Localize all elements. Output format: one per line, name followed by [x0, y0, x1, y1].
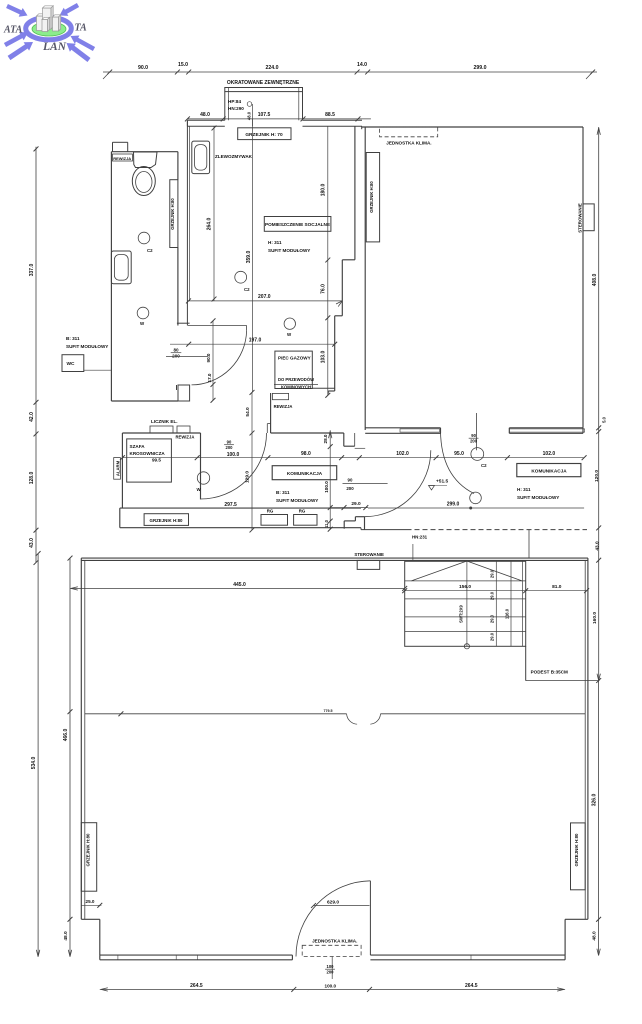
svg-text:264.5: 264.5: [465, 983, 478, 989]
svg-text:29.0: 29.0: [490, 614, 495, 623]
svg-text:GRZEJNIK H:80: GRZEJNIK H:80: [170, 198, 175, 230]
svg-text:17.0: 17.0: [207, 373, 212, 382]
svg-text:43.0: 43.0: [594, 541, 600, 551]
svg-text:PIEC GAZOWY: PIEC GAZOWY: [278, 356, 311, 361]
svg-text:ATA: ATA: [3, 25, 23, 36]
svg-text:224.0: 224.0: [266, 65, 279, 71]
svg-text:HP:84: HP:84: [228, 99, 241, 104]
svg-text:PODEST B:35CM: PODEST B:35CM: [531, 670, 568, 675]
svg-text:KOMUNIKACJA: KOMUNIKACJA: [531, 469, 567, 474]
svg-text:48.0: 48.0: [592, 931, 598, 941]
svg-text:534.0: 534.0: [31, 757, 37, 770]
svg-text:SUFIT MODUŁOWY: SUFIT MODUŁOWY: [268, 248, 310, 253]
svg-text:359.0: 359.0: [246, 251, 252, 264]
svg-text:160.0: 160.0: [592, 612, 598, 624]
svg-text:HN:231: HN:231: [412, 535, 428, 540]
svg-text:+51.5: +51.5: [436, 479, 448, 485]
svg-text:326.0: 326.0: [592, 794, 598, 807]
svg-text:48.0: 48.0: [200, 112, 210, 118]
svg-text:SZAFA: SZAFA: [130, 444, 146, 449]
svg-text:HN:290: HN:290: [228, 106, 244, 111]
svg-text:GRZEJNIK H:80: GRZEJNIK H:80: [150, 518, 183, 523]
svg-text:466.0: 466.0: [63, 729, 69, 742]
svg-text:RG: RG: [267, 509, 274, 514]
svg-text:629.0: 629.0: [327, 900, 339, 906]
svg-text:STEROWANIE: STEROWANIE: [354, 552, 384, 557]
svg-text:POMIESZCZENIE SOCJALNE: POMIESZCZENIE SOCJALNE: [265, 222, 330, 227]
svg-text:STEROWANIE: STEROWANIE: [578, 203, 583, 233]
svg-text:100.0: 100.0: [325, 984, 337, 989]
svg-text:99.5: 99.5: [152, 458, 161, 463]
svg-text:200: 200: [327, 969, 335, 974]
svg-text:200: 200: [470, 438, 478, 443]
svg-text:408.0: 408.0: [592, 274, 598, 287]
svg-text:779.5: 779.5: [324, 709, 333, 713]
svg-text:14.0: 14.0: [357, 62, 367, 68]
svg-text:43.0: 43.0: [29, 538, 35, 548]
svg-text:103.0: 103.0: [321, 351, 327, 364]
svg-text:200: 200: [226, 445, 234, 450]
svg-text:KROSOWNICZA: KROSOWNICZA: [130, 451, 166, 456]
svg-text:90.0: 90.0: [138, 65, 148, 71]
svg-text:90: 90: [471, 433, 476, 438]
svg-text:JEDNOSTKA KLIMA.: JEDNOSTKA KLIMA.: [312, 939, 357, 944]
svg-text:128.0: 128.0: [29, 472, 35, 485]
svg-text:GRZEJNIK H:80: GRZEJNIK H:80: [86, 833, 91, 866]
svg-text:200: 200: [172, 353, 180, 358]
svg-text:100.0: 100.0: [324, 481, 329, 493]
svg-text:SUFIT MODUŁOWY: SUFIT MODUŁOWY: [517, 495, 559, 500]
svg-text:264.5: 264.5: [190, 983, 203, 989]
svg-text:28.0: 28.0: [323, 434, 328, 443]
svg-text:29.0: 29.0: [351, 501, 361, 507]
svg-text:LICZNIK EL.: LICZNIK EL.: [151, 419, 178, 424]
svg-text:OKRATOWANE ZEWNĘTRZNE: OKRATOWANE ZEWNĘTRZNE: [227, 80, 300, 86]
svg-text:76.0: 76.0: [321, 284, 327, 294]
svg-text:80: 80: [173, 348, 179, 353]
svg-text:REWIZJA: REWIZJA: [274, 404, 293, 409]
svg-text:207.0: 207.0: [258, 294, 271, 300]
svg-text:REWIZJA: REWIZJA: [176, 435, 195, 440]
svg-text:REWIZJA: REWIZJA: [113, 156, 131, 161]
svg-text:29.0: 29.0: [490, 591, 495, 600]
svg-text:445.0: 445.0: [233, 582, 246, 588]
svg-text:GRZEJNIK H:80: GRZEJNIK H:80: [574, 833, 579, 866]
svg-text:100: 100: [327, 964, 335, 969]
svg-text:JEDNOSTKA KLIMA.: JEDNOSTKA KLIMA.: [386, 141, 431, 146]
svg-text:197.0: 197.0: [249, 338, 262, 344]
svg-text:88.5: 88.5: [325, 112, 335, 118]
svg-text:DO PRZEWODÓW: DO PRZEWODÓW: [278, 377, 314, 382]
svg-text:107.5: 107.5: [258, 112, 271, 118]
svg-text:90.0: 90.0: [206, 353, 211, 362]
svg-text:264.0: 264.0: [207, 218, 213, 231]
svg-text:C2: C2: [244, 287, 250, 292]
svg-text:H: 311: H: 311: [268, 240, 282, 245]
svg-text:C2: C2: [147, 248, 153, 253]
svg-text:KOMINOWYCH: KOMINOWYCH: [281, 385, 311, 390]
svg-text:180.0: 180.0: [321, 184, 327, 197]
svg-text:90: 90: [348, 478, 353, 483]
svg-text:299.0: 299.0: [447, 502, 460, 508]
svg-text:RG: RG: [299, 509, 306, 514]
svg-text:GRZEJNIK H:80: GRZEJNIK H:80: [369, 181, 374, 213]
svg-text:H: 311: H: 311: [517, 487, 531, 492]
svg-text:25.0: 25.0: [86, 899, 95, 904]
svg-text:100.0: 100.0: [227, 452, 240, 458]
svg-text:116.0: 116.0: [505, 608, 510, 619]
svg-text:SUFIT MODUŁOWY: SUFIT MODUŁOWY: [276, 498, 318, 503]
svg-text:5.0: 5.0: [602, 416, 607, 422]
svg-text:120.0: 120.0: [594, 470, 600, 482]
svg-text:ZLEWOZMYWAK: ZLEWOZMYWAK: [215, 154, 253, 159]
svg-text:TA: TA: [75, 23, 88, 34]
svg-text:B: 311: B: 311: [66, 336, 80, 341]
svg-text:200: 200: [346, 486, 354, 491]
svg-text:11.0: 11.0: [324, 519, 329, 528]
svg-text:81.0: 81.0: [552, 584, 562, 590]
svg-text:GRZEJNIK H: 70: GRZEJNIK H: 70: [245, 132, 283, 138]
svg-text:WC: WC: [67, 361, 76, 367]
svg-text:129.0: 129.0: [245, 471, 251, 483]
svg-text:B: 311: B: 311: [276, 490, 290, 495]
svg-text:29.0: 29.0: [490, 632, 495, 641]
svg-text:102.0: 102.0: [396, 451, 409, 457]
svg-text:95.0: 95.0: [454, 451, 464, 457]
svg-text:KOMUNIKACJA: KOMUNIKACJA: [287, 471, 323, 476]
svg-text:297.5: 297.5: [224, 502, 237, 508]
svg-text:337.0: 337.0: [29, 264, 35, 277]
svg-text:SUFIT MODUŁOWY: SUFIT MODUŁOWY: [66, 344, 108, 349]
svg-text:42.0: 42.0: [29, 412, 35, 422]
svg-text:ALARM: ALARM: [116, 460, 121, 476]
svg-text:98.0: 98.0: [301, 451, 311, 457]
svg-text:90: 90: [227, 440, 232, 445]
svg-text:48.0: 48.0: [63, 931, 69, 941]
svg-text:29.0: 29.0: [490, 569, 495, 578]
svg-text:LAN: LAN: [42, 41, 67, 53]
svg-text:15.0: 15.0: [178, 62, 188, 68]
svg-text:156.0: 156.0: [459, 584, 471, 590]
svg-text:299.0: 299.0: [474, 65, 487, 71]
svg-text:102.0: 102.0: [543, 451, 556, 457]
svg-text:SWT:2X9: SWT:2X9: [458, 604, 463, 622]
svg-text:54.0: 54.0: [245, 407, 251, 417]
svg-text:C2: C2: [481, 463, 487, 468]
